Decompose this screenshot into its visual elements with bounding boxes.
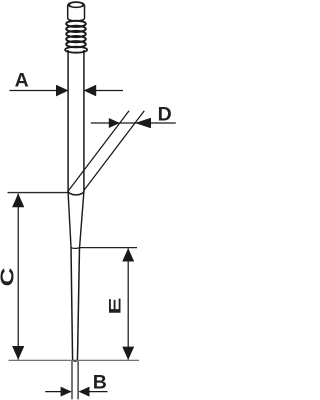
dimension C arrow up: [12, 193, 24, 207]
svg-text:E: E: [107, 298, 125, 315]
B extension line right: [77, 361, 79, 399]
mid taper transition arc: [71, 247, 80, 248]
dimension A arrow left (pointing right): [56, 85, 69, 97]
taper transition arc: [68, 190, 84, 195]
dimension B arrow (pointing left): [79, 387, 90, 397]
B extension line left: [71, 361, 73, 399]
dimension C line: [17, 194, 19, 360]
svg-text:C: C: [0, 268, 18, 287]
taper angle diagonal line 2: [84, 111, 144, 190]
dimension D arrow (pointing left): [135, 118, 151, 129]
dimension A arrow right (pointing left): [84, 85, 97, 97]
upper taper left line: [68, 191, 71, 247]
svg-text:A: A: [15, 70, 29, 92]
lower taper right line: [78, 247, 80, 359]
dimension D arrow (pointing right): [109, 118, 120, 128]
dimension B arrow (pointing right): [61, 387, 72, 397]
upper taper right line: [80, 190, 84, 247]
spring coil ring 2: [66, 26, 86, 32]
dimension C arrow down: [12, 346, 24, 360]
C top extension line: [8, 192, 68, 194]
spring coil end ring (wide): [65, 47, 87, 53]
dimension E line: [127, 248, 129, 359]
needle head cap body: [68, 5, 85, 21]
taper angle diagonal line 1: [68, 111, 129, 192]
E top extension line: [80, 247, 137, 249]
dimension E arrow down: [122, 347, 134, 360]
needle head cap top rim (filled ring): [68, 1, 85, 8]
dimension A leader line left: [10, 90, 67, 92]
dimension B tail line right / label underline: [90, 391, 108, 393]
svg-text:D: D: [158, 104, 172, 126]
needle tip round: [73, 359, 78, 362]
dimension E arrow up: [122, 248, 134, 261]
dimension A tail line right: [84, 90, 123, 92]
dimension D line: [91, 122, 176, 124]
spring coil ring 5: [66, 41, 86, 47]
spring coil ring 4: [66, 36, 86, 42]
spring coil ring 1: [66, 21, 86, 27]
shaft left line: [67, 50, 69, 191]
lower taper left line: [71, 247, 73, 359]
svg-text:B: B: [93, 371, 107, 393]
spring coil ring 3: [66, 31, 86, 37]
bottom extension line (tip level, gray): [9, 359, 140, 361]
dimension B tail line left: [45, 391, 71, 393]
needle head cap top rim inner white: [70, 3, 82, 7]
shaft right line: [83, 50, 85, 190]
